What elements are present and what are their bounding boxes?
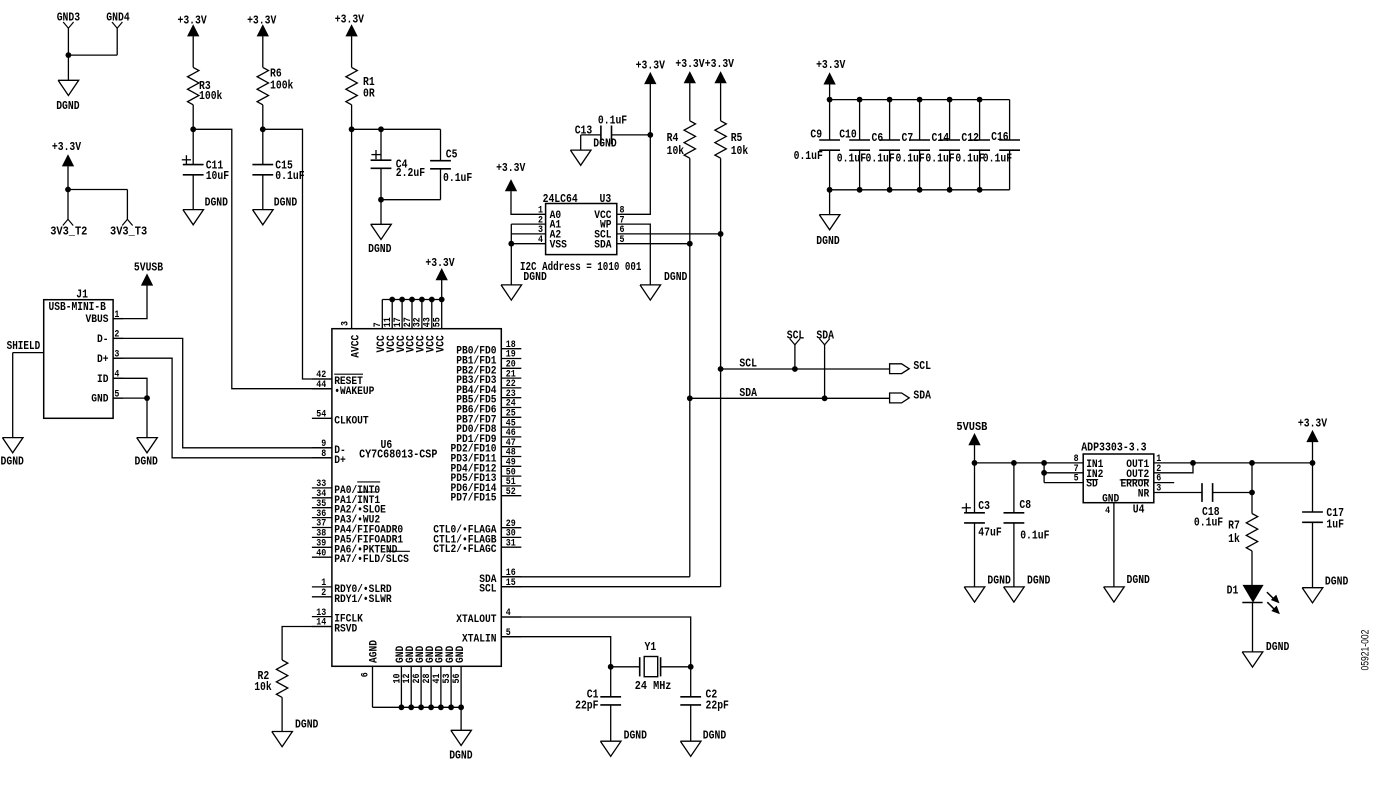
ground DGND bbox=[501, 270, 547, 300]
ground DGND bbox=[640, 270, 687, 300]
resistor R4 bbox=[667, 121, 696, 158]
svg-text:3V3_T2: 3V3_T2 bbox=[50, 225, 87, 239]
wire bbox=[192, 105, 194, 130]
pin 41 GND bbox=[432, 645, 447, 707]
pin 39 PA6/*PKTEND bbox=[312, 539, 398, 557]
overline RESET bbox=[334, 373, 363, 375]
power +3.3V bbox=[1298, 417, 1328, 442]
pin 2 D- bbox=[97, 330, 123, 346]
wire GND bbox=[113, 397, 147, 399]
wire SDA bbox=[617, 243, 690, 245]
svg-text:44: 44 bbox=[316, 380, 326, 391]
wire bbox=[1312, 442, 1314, 463]
IC U3 24LC64 bbox=[538, 192, 625, 255]
power +3.3V bbox=[335, 12, 365, 36]
svg-text:0.1uF: 0.1uF bbox=[925, 152, 954, 166]
pin 53 GND bbox=[442, 645, 457, 707]
wire bbox=[460, 707, 462, 730]
wire bbox=[68, 190, 127, 220]
svg-text:+3.3V: +3.3V bbox=[425, 256, 455, 270]
pin 7 VCC bbox=[373, 300, 388, 353]
svg-text:5: 5 bbox=[1074, 474, 1079, 485]
junction bbox=[887, 97, 893, 103]
junction bbox=[399, 297, 405, 303]
wire VCC to +3.3V bbox=[617, 84, 651, 214]
wire bbox=[511, 191, 546, 214]
junction bbox=[1041, 470, 1047, 476]
capacitor C13 bbox=[575, 114, 651, 151]
svg-text:•WAKEUP: •WAKEUP bbox=[334, 386, 375, 398]
overline SLCS bbox=[387, 550, 410, 552]
wire bbox=[116, 28, 118, 55]
wire bbox=[829, 190, 831, 215]
junction bbox=[917, 187, 923, 193]
junction bbox=[458, 704, 464, 710]
junction bbox=[977, 97, 983, 103]
svg-text:55: 55 bbox=[433, 317, 444, 327]
junction bbox=[408, 704, 414, 710]
ground DGND bbox=[1242, 640, 1289, 667]
svg-text:C9: C9 bbox=[810, 128, 822, 142]
overline SD bbox=[1086, 479, 1098, 481]
junction bbox=[857, 187, 863, 193]
ground DGND bbox=[816, 215, 840, 249]
junction bbox=[718, 231, 724, 237]
svg-text:SDA: SDA bbox=[913, 388, 931, 402]
svg-text:DGND: DGND bbox=[1027, 574, 1050, 588]
svg-text:DGND: DGND bbox=[1325, 575, 1348, 589]
svg-text:PD7/FD15: PD7/FD15 bbox=[451, 493, 497, 505]
junction bbox=[409, 297, 415, 303]
wire bbox=[689, 158, 691, 577]
power +3.3V bbox=[675, 57, 705, 83]
pin 18 PB0/FD0 bbox=[456, 340, 521, 358]
svg-text:2: 2 bbox=[321, 588, 326, 599]
wire ID bbox=[113, 378, 147, 398]
svg-text:C12: C12 bbox=[961, 131, 979, 145]
pin 27 VCC bbox=[403, 300, 418, 353]
junction bbox=[190, 126, 196, 132]
svg-text:D+: D+ bbox=[97, 354, 109, 366]
resistor R1 bbox=[346, 67, 375, 104]
svg-text:CLKOUT: CLKOUT bbox=[334, 415, 369, 427]
junction bbox=[647, 132, 653, 138]
svg-text:2.2uF: 2.2uF bbox=[396, 166, 425, 180]
svg-text:SCL: SCL bbox=[787, 328, 805, 342]
svg-text:CY7C68013-CSP: CY7C68013-CSP bbox=[359, 447, 437, 461]
junction bbox=[687, 395, 693, 401]
port GND3 bbox=[57, 11, 80, 29]
IC U4 ADP3303-3.3 body bbox=[1074, 440, 1162, 516]
svg-text:Y1: Y1 bbox=[645, 640, 657, 654]
junction bbox=[448, 704, 454, 710]
wire GND pin4 bbox=[1113, 503, 1115, 587]
overline INT0 bbox=[357, 482, 380, 492]
capacitor C14 bbox=[925, 100, 960, 190]
ground DGND bbox=[1302, 575, 1348, 603]
svg-text:52: 52 bbox=[506, 487, 516, 498]
ground bus wire bbox=[373, 706, 462, 708]
svg-text:U4: U4 bbox=[1133, 503, 1145, 517]
ground DGND bbox=[1104, 573, 1150, 602]
svg-text:USB-MINI-B: USB-MINI-B bbox=[49, 300, 106, 314]
svg-text:5: 5 bbox=[620, 235, 625, 246]
svg-text:+3.3V: +3.3V bbox=[335, 12, 365, 26]
IC U6 CY7C68013-CSP body bbox=[332, 329, 501, 667]
svg-text:+3.3V: +3.3V bbox=[177, 14, 207, 28]
pin 47 PD2/FD10 bbox=[451, 438, 522, 456]
power +3.3V bbox=[425, 256, 455, 280]
pin 15 SCL bbox=[479, 578, 521, 596]
wire bbox=[829, 84, 831, 99]
junction bbox=[887, 187, 893, 193]
LED D1 bbox=[1227, 584, 1280, 614]
svg-text:SCL: SCL bbox=[479, 584, 497, 596]
svg-text:C13: C13 bbox=[575, 124, 593, 138]
capacitor C18 bbox=[1194, 483, 1252, 529]
capacitor C9 bbox=[794, 100, 840, 190]
junction bbox=[718, 366, 724, 372]
svg-text:0.1uF: 0.1uF bbox=[275, 169, 304, 183]
svg-text:40: 40 bbox=[316, 548, 326, 559]
ground DGND bbox=[56, 80, 79, 113]
svg-text:C6: C6 bbox=[872, 131, 884, 145]
wire SDA to bus bbox=[501, 576, 690, 578]
capacitor C8 bbox=[1004, 463, 1050, 587]
svg-text:0.1uF: 0.1uF bbox=[866, 152, 895, 166]
junction bbox=[439, 297, 445, 303]
junction bbox=[419, 297, 425, 303]
svg-text:C7: C7 bbox=[902, 131, 914, 145]
port SDA bbox=[890, 388, 932, 403]
wire bbox=[67, 166, 69, 189]
pin 52 PD7/FD15 bbox=[451, 487, 522, 505]
svg-text:10k: 10k bbox=[667, 144, 685, 158]
pin 54 CLKOUT bbox=[312, 410, 369, 428]
junction bbox=[349, 126, 355, 132]
wire bbox=[1251, 551, 1253, 585]
junction bbox=[1310, 460, 1316, 466]
wire bbox=[281, 697, 283, 731]
resistor R6 bbox=[257, 66, 293, 104]
wire XTALIN bbox=[501, 637, 610, 667]
svg-text:DGND: DGND bbox=[987, 574, 1010, 588]
pin 29 CTL0/*FLAGA bbox=[433, 519, 521, 537]
pin 11 VCC bbox=[383, 300, 398, 353]
pin 37 PA4/FIFOADR0 bbox=[312, 519, 403, 537]
wire bbox=[720, 83, 722, 121]
svg-text:XTALIN: XTALIN bbox=[462, 634, 497, 646]
svg-text:0.1uF: 0.1uF bbox=[443, 171, 472, 185]
svg-text:C5: C5 bbox=[446, 147, 458, 161]
junction bbox=[1041, 460, 1047, 466]
svg-text:XTALOUT: XTALOUT bbox=[456, 614, 497, 626]
svg-text:RSVD: RSVD bbox=[334, 624, 357, 636]
svg-text:+3.3V: +3.3V bbox=[705, 57, 735, 71]
pin 17 VCC bbox=[393, 300, 408, 353]
svg-text:GND3: GND3 bbox=[57, 11, 80, 25]
ground DGND bbox=[1004, 574, 1051, 603]
wire VBUS bbox=[113, 285, 147, 318]
junction bbox=[428, 704, 434, 710]
svg-text:DGND: DGND bbox=[664, 270, 687, 284]
port GND4 bbox=[106, 11, 129, 29]
testpoint 3V3_T2 bbox=[50, 219, 87, 238]
svg-text:AVCC: AVCC bbox=[350, 334, 362, 357]
svg-text:D1: D1 bbox=[1227, 584, 1239, 598]
svg-text:10k: 10k bbox=[731, 144, 749, 158]
pin 28 GND bbox=[422, 645, 437, 707]
svg-text:+3.3V: +3.3V bbox=[496, 161, 526, 175]
svg-text:SDA: SDA bbox=[816, 328, 834, 342]
pin 36 PA3/*WU2 bbox=[312, 509, 380, 527]
svg-text:+3.3V: +3.3V bbox=[52, 140, 82, 154]
pin 34 PA1/INT1 bbox=[312, 489, 381, 507]
pin 56 GND bbox=[452, 645, 467, 707]
wire bbox=[380, 200, 382, 225]
junction bbox=[947, 187, 953, 193]
svg-text:SDA: SDA bbox=[594, 239, 612, 251]
wire bbox=[67, 55, 69, 80]
svg-text:31: 31 bbox=[506, 538, 516, 549]
wire bbox=[67, 28, 69, 55]
pin 8 D+ bbox=[312, 449, 346, 467]
wire bbox=[262, 36, 264, 67]
svg-text:DGND: DGND bbox=[135, 454, 158, 468]
wire OUT1 bbox=[1154, 462, 1313, 464]
capacitor C2 bbox=[680, 667, 729, 741]
label I2C address bbox=[520, 260, 641, 274]
ground DGND bbox=[680, 729, 726, 757]
wire bbox=[661, 666, 691, 668]
svg-text:22pF: 22pF bbox=[575, 699, 598, 713]
crystal Y1 bbox=[635, 640, 672, 693]
pin 12 GND bbox=[402, 645, 417, 707]
svg-text:AGND: AGND bbox=[368, 640, 380, 663]
capacitor C11 bbox=[182, 129, 229, 209]
junction bbox=[1249, 490, 1255, 496]
wire D- bbox=[113, 338, 332, 447]
wire bbox=[974, 445, 976, 513]
svg-text:C16: C16 bbox=[991, 130, 1009, 144]
svg-text:56: 56 bbox=[452, 674, 463, 684]
svg-text:0.1uF: 0.1uF bbox=[794, 149, 823, 163]
resistor R2 bbox=[254, 660, 288, 697]
power +3.3V bbox=[816, 58, 846, 84]
pin 49 PD4/FD12 bbox=[451, 458, 522, 476]
power +3.3V bbox=[636, 59, 666, 84]
svg-text:0R: 0R bbox=[363, 86, 375, 100]
svg-text:NR: NR bbox=[1138, 489, 1150, 501]
svg-text:+3.3V: +3.3V bbox=[1298, 417, 1328, 431]
net SHIELD bbox=[7, 339, 44, 353]
svg-text:4: 4 bbox=[1105, 506, 1110, 517]
svg-text:DGND: DGND bbox=[624, 729, 647, 743]
junction bbox=[418, 704, 424, 710]
junction bbox=[399, 704, 405, 710]
wire ERROR stub bbox=[1154, 482, 1174, 484]
wire bbox=[12, 353, 14, 438]
testpoint 3V3_T3 bbox=[110, 219, 147, 238]
pin 25 PB7/FD7 bbox=[456, 409, 521, 427]
testpoint SCL bbox=[787, 328, 805, 372]
pin 19 PB1/FD1 bbox=[456, 350, 521, 368]
ground DGND bbox=[368, 224, 391, 256]
svg-text:GND: GND bbox=[91, 394, 109, 406]
svg-text:U3: U3 bbox=[600, 192, 612, 206]
svg-text:GND: GND bbox=[455, 645, 467, 663]
svg-text:SCL: SCL bbox=[913, 359, 931, 373]
svg-text:4: 4 bbox=[538, 235, 543, 246]
svg-text:ADP3303-3.3: ADP3303-3.3 bbox=[1081, 440, 1146, 454]
svg-text:DGND: DGND bbox=[56, 99, 79, 113]
wire XTALOUT bbox=[501, 617, 690, 667]
junction bbox=[65, 187, 71, 193]
svg-text:0.1uF: 0.1uF bbox=[1020, 529, 1049, 543]
wire bbox=[68, 54, 117, 56]
pin 6 AGND bbox=[361, 640, 381, 708]
svg-text:RDY1/•SLWR: RDY1/•SLWR bbox=[334, 594, 392, 606]
svg-text:47uF: 47uF bbox=[978, 525, 1001, 539]
wire VSS bbox=[511, 243, 545, 245]
svg-text:22pF: 22pF bbox=[706, 699, 729, 713]
wire bbox=[381, 199, 441, 201]
pin 2 RDY1/*SLWR bbox=[312, 588, 392, 606]
svg-text:ID: ID bbox=[97, 374, 109, 386]
svg-text:VBUS: VBUS bbox=[86, 314, 109, 326]
wire to AVCC bbox=[351, 105, 353, 329]
resistor R7 bbox=[1228, 514, 1258, 551]
pin 45 PD0/FD8 bbox=[456, 418, 521, 436]
svg-text:DGND: DGND bbox=[523, 270, 546, 284]
wire D+ bbox=[113, 358, 332, 458]
svg-text:+3.3V: +3.3V bbox=[247, 14, 277, 28]
pin 3 AVCC bbox=[341, 321, 363, 358]
capacitor C10 bbox=[837, 100, 870, 190]
junction bbox=[917, 97, 923, 103]
svg-text:GND: GND bbox=[1102, 494, 1120, 506]
junction bbox=[508, 241, 514, 247]
svg-text:0.1uF: 0.1uF bbox=[1194, 516, 1223, 530]
junction bbox=[1011, 460, 1017, 466]
wire RSVD to R2 bbox=[282, 627, 332, 661]
junction bbox=[144, 395, 150, 401]
bus wire bottom bbox=[830, 189, 1010, 191]
power 5VUSB bbox=[134, 260, 163, 285]
power +3.3V bbox=[52, 140, 82, 166]
wire bbox=[1252, 603, 1254, 652]
ground DGND bbox=[135, 438, 158, 469]
junction bbox=[260, 126, 266, 132]
pin 23 PB5/FD5 bbox=[456, 389, 521, 407]
junction bbox=[947, 97, 953, 103]
pin 5 XTALIN bbox=[462, 628, 521, 646]
ground DGND bbox=[570, 150, 591, 165]
pin 9 D- bbox=[312, 439, 346, 457]
wire bbox=[720, 158, 722, 587]
ground DGND bbox=[272, 718, 319, 747]
capacitor C1 bbox=[575, 667, 621, 741]
svg-text:R7: R7 bbox=[1228, 519, 1240, 533]
pin 10 GND bbox=[392, 645, 407, 707]
wire bbox=[351, 36, 353, 67]
junction bbox=[857, 97, 863, 103]
svg-text:+3.3V: +3.3V bbox=[816, 58, 846, 72]
svg-text:10uF: 10uF bbox=[206, 169, 229, 183]
pin 4 ID bbox=[97, 370, 123, 386]
svg-text:+3.3V: +3.3V bbox=[636, 59, 666, 73]
pin 1 VBUS bbox=[86, 310, 124, 326]
resistor R5 bbox=[715, 121, 748, 158]
svg-text:DGND: DGND bbox=[1127, 573, 1150, 587]
pin 48 PD3/FD11 bbox=[451, 448, 522, 466]
testpoint SDA bbox=[816, 328, 834, 401]
resistor R3 bbox=[188, 67, 223, 104]
net SDA wire bbox=[690, 386, 890, 400]
capacitor C17 bbox=[1302, 463, 1344, 588]
pin 16 SDA bbox=[479, 568, 521, 586]
pin 35 PA2/*SLOE bbox=[312, 499, 386, 517]
wire OUT2 bbox=[1154, 463, 1193, 473]
power +3.3V bbox=[247, 14, 277, 36]
svg-text:SCL: SCL bbox=[739, 357, 757, 371]
svg-text:DGND: DGND bbox=[703, 729, 726, 743]
junction bbox=[378, 126, 384, 132]
pin 44 *WAKEUP bbox=[312, 380, 375, 398]
capacitor C7 bbox=[896, 100, 931, 190]
wire IN2/SD bbox=[1044, 463, 1083, 483]
ground DGND bbox=[1, 438, 24, 469]
svg-text:24LC64: 24LC64 bbox=[543, 192, 578, 206]
junction bbox=[977, 187, 983, 193]
svg-text:05921-002: 05921-002 bbox=[1360, 630, 1372, 671]
net SCL wire bbox=[721, 357, 890, 371]
pin 14 RSVD bbox=[312, 618, 358, 636]
bus wire top bbox=[830, 99, 1010, 101]
svg-text:0.1uF: 0.1uF bbox=[896, 152, 925, 166]
svg-text:0.1uF: 0.1uF bbox=[598, 114, 627, 128]
junction bbox=[608, 664, 614, 670]
junction bbox=[378, 197, 384, 203]
svg-text:100k: 100k bbox=[270, 78, 293, 92]
svg-text:100k: 100k bbox=[199, 89, 222, 103]
svg-text:DGND: DGND bbox=[295, 718, 318, 732]
ground DGND bbox=[253, 195, 298, 225]
svg-text:D+: D+ bbox=[334, 455, 346, 467]
svg-text:6: 6 bbox=[361, 672, 372, 677]
pin 5 GND bbox=[91, 389, 123, 405]
ground DGND bbox=[449, 730, 472, 762]
pin 24 PB6/FD6 bbox=[456, 399, 521, 417]
svg-text:C8: C8 bbox=[1019, 498, 1031, 512]
ground DGND bbox=[600, 729, 647, 757]
svg-text:DGND: DGND bbox=[1, 454, 24, 468]
svg-text:+3.3V: +3.3V bbox=[675, 57, 705, 71]
svg-text:DGND: DGND bbox=[449, 749, 472, 763]
pin 30 CTL1/*FLAGB bbox=[433, 529, 521, 547]
svg-text:C14: C14 bbox=[932, 131, 950, 145]
svg-text:1uF: 1uF bbox=[1326, 518, 1344, 532]
svg-text:DGND: DGND bbox=[593, 137, 616, 151]
power +3.3V bbox=[177, 14, 207, 36]
wire bbox=[67, 190, 69, 220]
capacitor C16 bbox=[983, 100, 1020, 190]
pin 38 PA5/FIFOADR1 bbox=[312, 529, 404, 547]
pin 3 D+ bbox=[97, 349, 123, 365]
wire bbox=[441, 280, 443, 300]
port SCL bbox=[890, 359, 931, 373]
pin 50 PD5/FD13 bbox=[451, 467, 522, 485]
